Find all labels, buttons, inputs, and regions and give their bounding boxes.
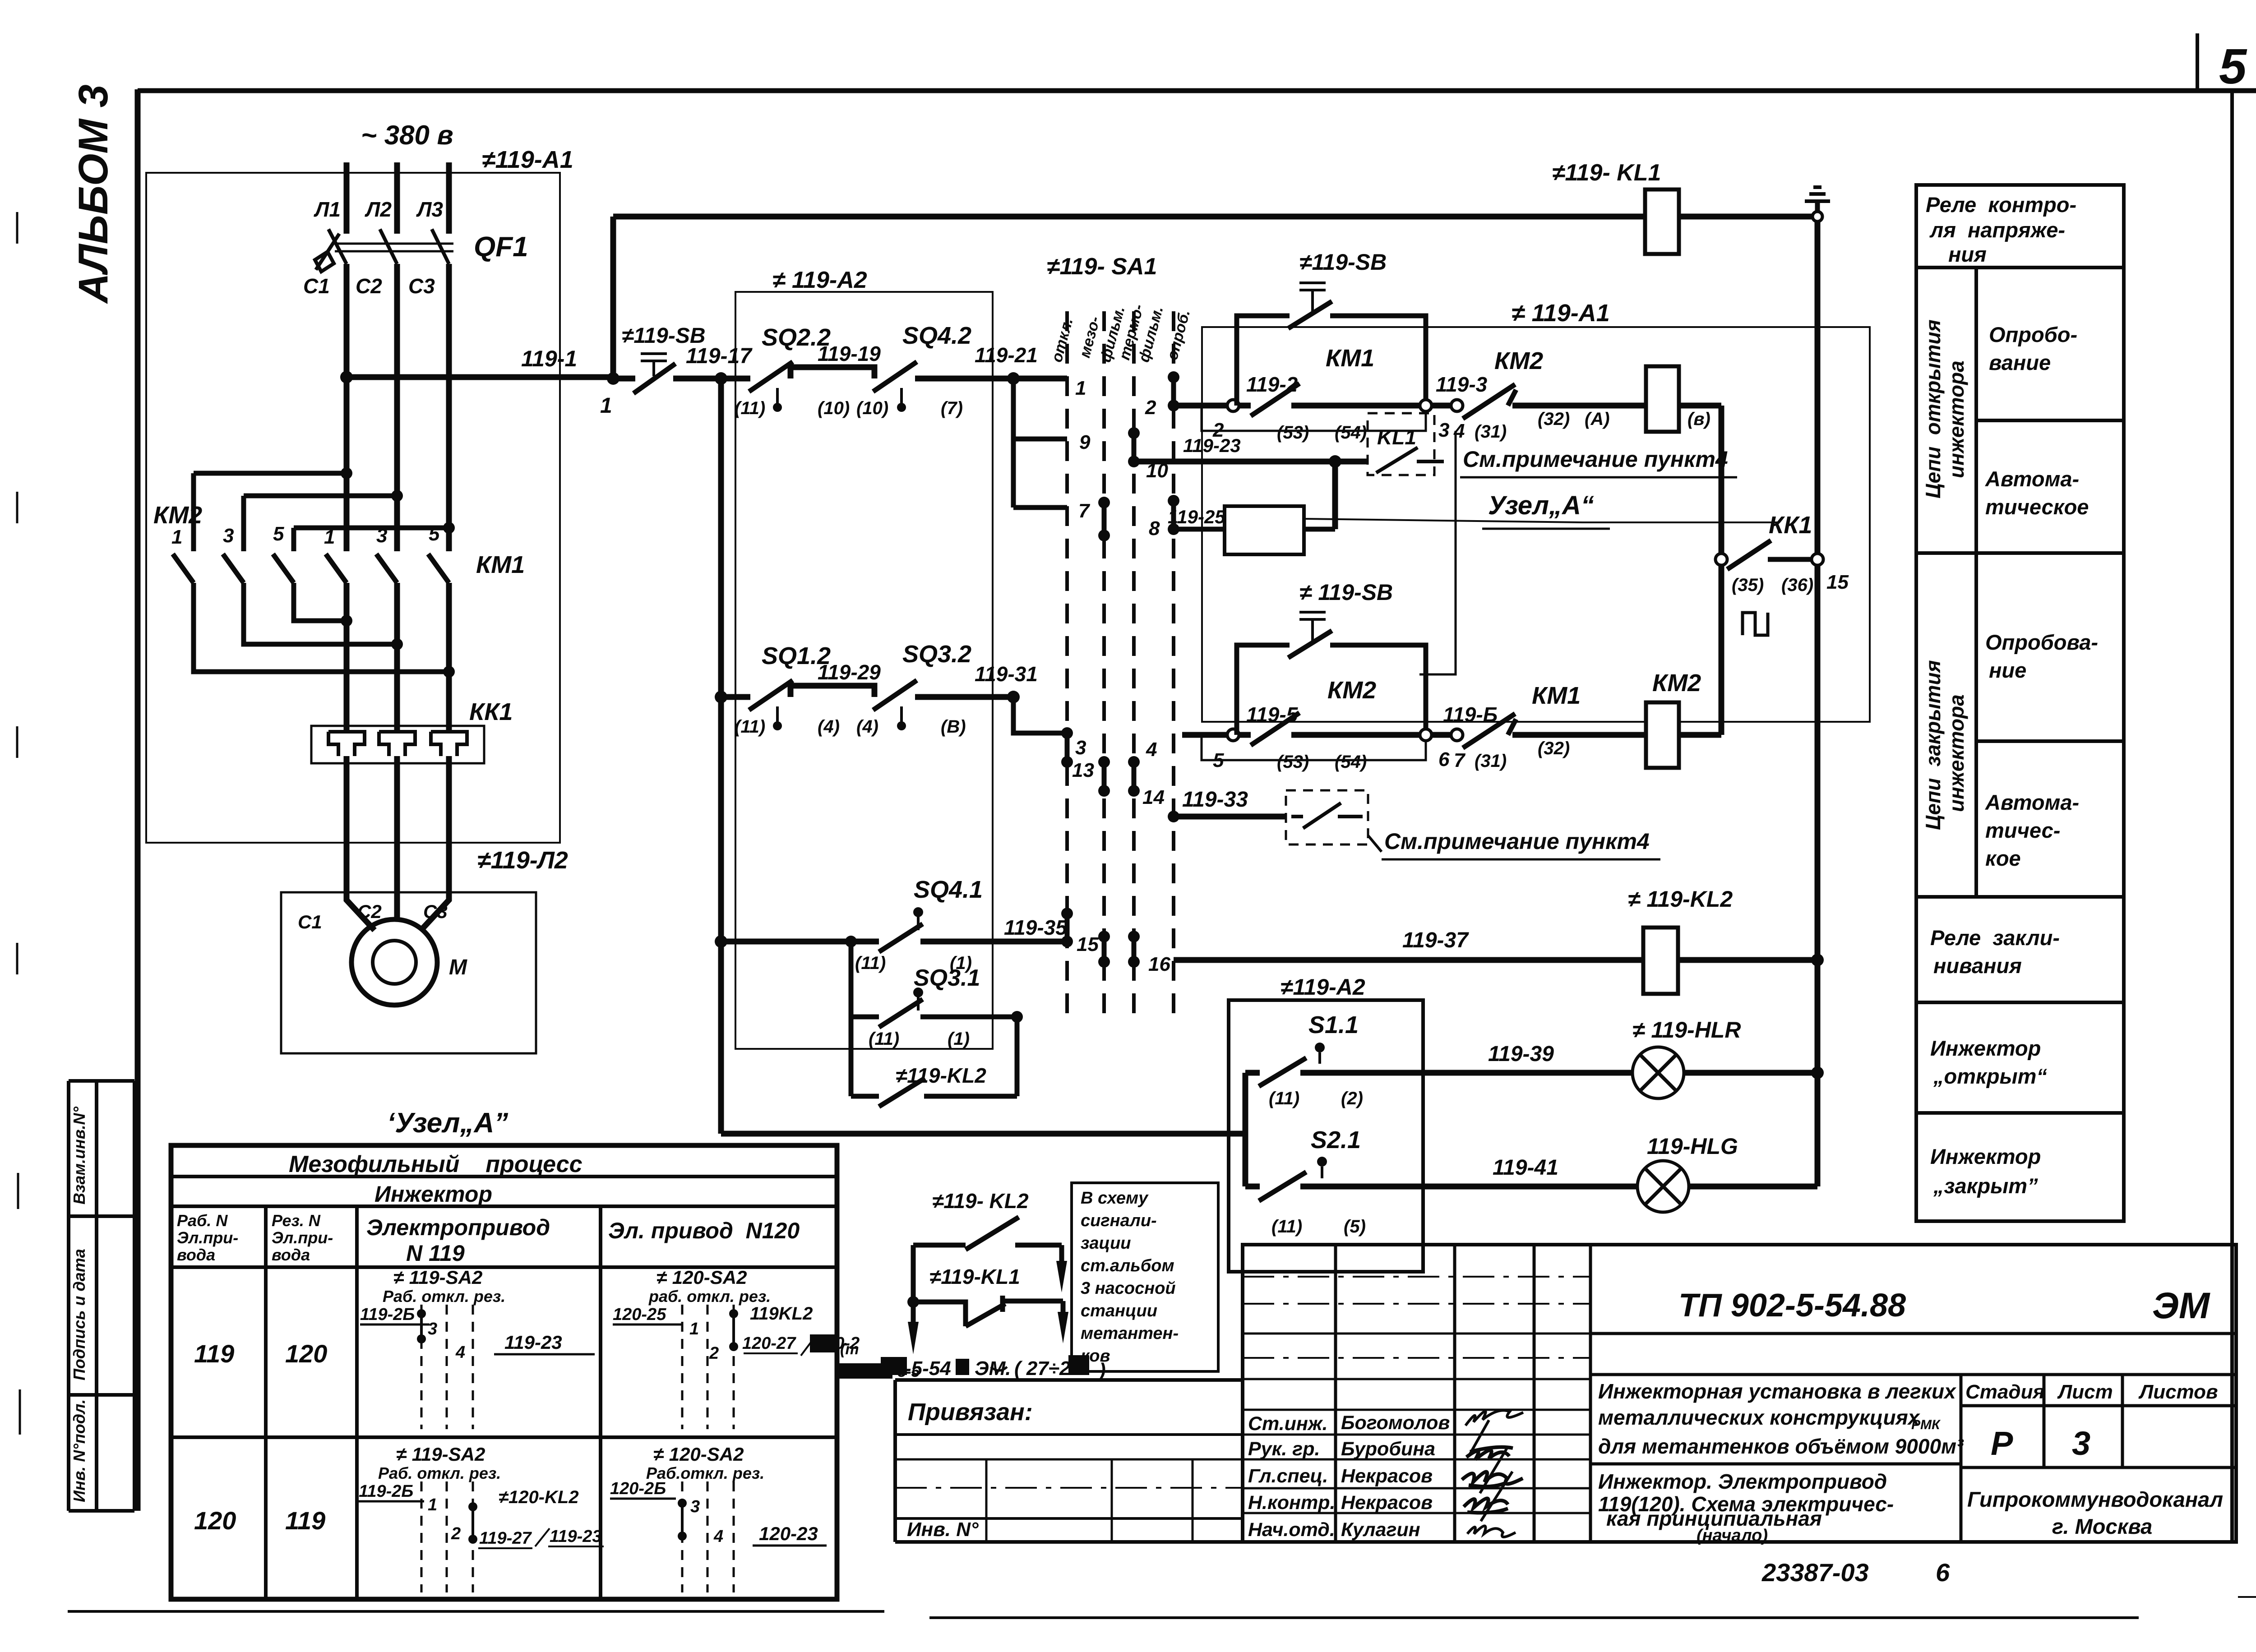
svg-text:(31): (31) <box>1475 422 1507 442</box>
svg-text:‘Узел„А”: ‘Узел„А” <box>387 1107 508 1139</box>
svg-text:„закрыт”: „закрыт” <box>1933 1174 2038 1198</box>
svg-text:C3: C3 <box>408 274 435 298</box>
wire branch to SA1 row3 <box>1013 697 1067 733</box>
SA1 contact pair col2 bottom <box>1102 937 1107 962</box>
svg-text:(7): (7) <box>941 398 963 418</box>
svg-text:Электропривод: Электропривод <box>366 1215 550 1240</box>
svg-text:ние: ние <box>1989 658 2026 682</box>
svg-text:КМ2: КМ2 <box>1494 347 1543 374</box>
svg-text:3: 3 <box>376 525 387 547</box>
motor M <box>351 919 437 1005</box>
svg-text:металлических конструкциях: металлических конструкциях <box>1598 1406 1921 1429</box>
svg-text:ля напряже-: ля напряже- <box>1929 218 2065 242</box>
svg-text:5: 5 <box>273 523 284 545</box>
svg-text:Мезофильный процесс: Мезофильный процесс <box>289 1151 582 1177</box>
svg-text:(32): (32) <box>1538 738 1570 758</box>
signature grid verticals <box>1336 1245 1590 1542</box>
sheet bottom edge line <box>68 1611 2139 1618</box>
legend table frame <box>1916 185 2124 1221</box>
wire phase C vertical <box>446 264 452 551</box>
svg-text:Инжектор: Инжектор <box>374 1181 492 1207</box>
svg-text:1: 1 <box>324 526 335 548</box>
header row Мезофильный процесс <box>171 1175 837 1178</box>
terminal 2 <box>1227 400 1239 411</box>
SA1 contact pair col4 <box>1171 501 1176 529</box>
svg-text:C3: C3 <box>423 901 448 922</box>
svg-text:Привязан:: Привязан: <box>908 1398 1033 1426</box>
svg-text:119-HLG: 119-HLG <box>1647 1134 1738 1159</box>
svg-text:вода: вода <box>272 1246 310 1264</box>
enclosure box 119-A1 right <box>1202 327 1870 722</box>
svg-text:C1: C1 <box>298 911 322 932</box>
svg-text:119: 119 <box>285 1506 325 1535</box>
svg-text:Некрасов: Некрасов <box>1341 1492 1433 1514</box>
row divider <box>171 1435 837 1439</box>
svg-text:KL1: KL1 <box>1377 425 1416 449</box>
svg-text:кое: кое <box>1985 846 2021 870</box>
svg-text:тичес-: тичес- <box>1985 818 2060 842</box>
svg-text:ТП 902-5-54.88: ТП 902-5-54.88 <box>1678 1287 1906 1324</box>
wire phase A vertical <box>344 264 350 551</box>
svg-text:инжектора: инжектора <box>1945 694 1968 812</box>
svg-text:S2.1: S2.1 <box>1311 1126 1361 1154</box>
svg-text:(11): (11) <box>869 1029 899 1049</box>
svg-text:119-21: 119-21 <box>975 343 1038 367</box>
wire main control vertical <box>718 378 724 1134</box>
SA1 contact pair col1 mid <box>1065 733 1070 762</box>
node 119-17 <box>715 372 727 385</box>
drawing frame left edge <box>135 89 141 1511</box>
svg-text:Лист: Лист <box>2057 1381 2113 1403</box>
wire 119-41 <box>1423 1184 1637 1190</box>
svg-text:SQ3.2: SQ3.2 <box>902 641 971 668</box>
cell Опробование закрытия <box>1976 739 2124 743</box>
SA1 contact pair col4 top <box>1171 377 1176 406</box>
svg-text:C2: C2 <box>356 274 382 298</box>
wire phase L2 stub <box>394 162 400 234</box>
wire SQ3.1 branch vertical <box>849 941 854 1096</box>
svg-text:120-23: 120-23 <box>759 1523 818 1544</box>
wire bus to ground <box>1679 214 1813 220</box>
svg-text:Кулагин: Кулагин <box>1341 1519 1420 1541</box>
svg-text:15: 15 <box>1826 571 1849 593</box>
svg-text:Некрасов: Некрасов <box>1341 1465 1433 1487</box>
privyazan grid <box>986 1459 1193 1542</box>
svg-text:Автома-: Автома- <box>1985 790 2079 814</box>
relay coil 119-KL2 <box>1643 928 1678 994</box>
svg-text:1: 1 <box>1075 377 1086 399</box>
wire motor line 3 <box>446 583 452 732</box>
svg-text:119-23: 119-23 <box>550 1527 602 1546</box>
cell Реле заклинивания <box>1916 1001 2124 1004</box>
wire feed to KM2 pole 1 <box>194 473 347 551</box>
wire loop right vertical <box>1015 1017 1020 1096</box>
node 119-1 tap <box>340 371 353 383</box>
node on 119-23 <box>1329 455 1341 468</box>
svg-text:SQ4.1: SQ4.1 <box>914 876 983 903</box>
svg-text:Раб. откл. рез.: Раб. откл. рез. <box>383 1287 505 1306</box>
circuit breaker QF1 <box>335 244 453 251</box>
svg-text:7: 7 <box>1454 749 1466 771</box>
svg-text:вание: вание <box>1989 351 2051 374</box>
stage cells <box>1961 1375 2122 1542</box>
svg-text:≠ 119-SA2: ≠ 119-SA2 <box>393 1267 482 1288</box>
svg-text:Ст.инж.: Ст.инж. <box>1248 1413 1328 1435</box>
leader line uzel A <box>1304 519 1778 522</box>
svg-text:≠119-А2: ≠119-А2 <box>1281 974 1365 1000</box>
svg-text:КМ2: КМ2 <box>1327 677 1376 704</box>
row under document number <box>1590 1332 2236 1335</box>
node 1 <box>607 372 619 385</box>
wire branch to SA1 row9 row7 <box>1013 378 1067 508</box>
svg-text:(54): (54) <box>1335 423 1367 443</box>
svg-text:120: 120 <box>285 1339 327 1368</box>
handwritten signatures <box>1465 1410 1523 1426</box>
vertical split for rotated labels <box>1974 268 1978 897</box>
svg-text:(11): (11) <box>735 398 765 418</box>
svg-text:(31): (31) <box>1475 751 1507 771</box>
wire phase L1 stub <box>344 162 350 234</box>
svg-text:120-2Б: 120-2Б <box>610 1479 666 1498</box>
svg-text:ния: ния <box>1948 242 1987 266</box>
svg-text:ков: ков <box>1081 1347 1110 1366</box>
svg-text:4: 4 <box>455 1343 465 1362</box>
wire 119-37 <box>1174 957 1643 963</box>
SA1 dashed column 1 <box>1065 311 1069 1024</box>
svg-text:(начало): (начало) <box>1697 1526 1768 1545</box>
relay contact KL1 in dashed box <box>1368 413 1434 475</box>
svg-text:16: 16 <box>1148 953 1170 975</box>
svg-text:Гипрокоммунводоканал: Гипрокоммунводоканал <box>1967 1487 2223 1511</box>
ground symbol <box>1815 201 1820 212</box>
svg-text:≠119-А1: ≠119-А1 <box>482 146 573 173</box>
svg-text:(11): (11) <box>855 953 886 973</box>
svg-text:Раб. N: Раб. N <box>177 1211 228 1230</box>
svg-text:Гл.спец.: Гл.спец. <box>1248 1465 1328 1487</box>
wire 119-19 <box>791 367 874 378</box>
svg-text:SQ3.1: SQ3.1 <box>914 965 980 991</box>
svg-text:3: 3 <box>1075 737 1086 759</box>
svg-text:зации: зации <box>1081 1234 1131 1253</box>
svg-text:119-31: 119-31 <box>975 662 1038 686</box>
svg-text:Л1: Л1 <box>314 198 341 221</box>
enclosure box 119-A1 left <box>146 173 560 843</box>
svg-text:Инв. N°подл.: Инв. N°подл. <box>70 1399 88 1502</box>
svg-text:3: 3 <box>1438 419 1449 441</box>
enclosure box 119-A2 left <box>735 292 993 1049</box>
wires KK1 to motor <box>347 756 449 930</box>
right return rail <box>1815 221 1821 1186</box>
svg-text:119-1: 119-1 <box>521 346 577 371</box>
svg-text:Инжектор. Электропривод: Инжектор. Электропривод <box>1598 1470 1887 1493</box>
contactor KM1 pole 3 <box>376 554 397 583</box>
note box to signalling scheme <box>1072 1183 1218 1371</box>
svg-text:3: 3 <box>2072 1425 2090 1462</box>
svg-text:119-23: 119-23 <box>504 1332 562 1353</box>
svg-text:раб. откл. рез.: раб. откл. рез. <box>648 1287 771 1306</box>
svg-text:инжектора: инжектора <box>1945 360 1968 478</box>
svg-text:2: 2 <box>1145 397 1156 419</box>
svg-text:тическое: тическое <box>1985 495 2089 519</box>
SA1 contact pair col3 <box>1132 433 1137 461</box>
wire 119-21 <box>915 376 1067 382</box>
svg-text:≠ 120-SA2: ≠ 120-SA2 <box>656 1267 747 1288</box>
svg-text:8: 8 <box>1149 517 1160 540</box>
svg-text:метантен-: метантен- <box>1081 1324 1179 1343</box>
svg-text:сигнали-: сигнали- <box>1081 1211 1157 1230</box>
svg-text:КМ2: КМ2 <box>1652 669 1701 697</box>
svg-text:ст.альбом: ст.альбом <box>1081 1256 1174 1275</box>
svg-text:станции: станции <box>1081 1301 1157 1320</box>
contactor KM2 pole 5 <box>273 554 294 583</box>
svg-text:119-37: 119-37 <box>1402 928 1469 952</box>
wire KM2 pole1 output crossover <box>194 583 449 672</box>
svg-text:М: М <box>449 955 467 979</box>
svg-text:1: 1 <box>428 1495 437 1514</box>
wire arrow right lower <box>1061 1301 1066 1314</box>
terminal 5 <box>1227 729 1239 741</box>
svg-text:Рез. N: Рез. N <box>272 1211 321 1230</box>
svg-text:6: 6 <box>1936 1558 1950 1587</box>
svg-text:(4): (4) <box>818 717 840 737</box>
svg-text:≠ 119-HLR: ≠ 119-HLR <box>1632 1017 1741 1043</box>
svg-text:(11): (11) <box>735 717 765 737</box>
wire S feed riser <box>1229 1073 1245 1186</box>
svg-text:SQ4.2: SQ4.2 <box>902 322 971 349</box>
svg-text:(4): (4) <box>856 717 878 737</box>
signature grid upper rows <box>1243 1277 1590 1358</box>
svg-text:(11): (11) <box>1271 1217 1302 1237</box>
SA1 dashed column 3 <box>1132 311 1136 1024</box>
svg-text:АЛЬБОМ 3: АЛЬБОМ 3 <box>70 84 116 304</box>
contactor KM1 pole 1 <box>326 554 347 583</box>
svg-text:(10): (10) <box>818 398 850 418</box>
wire 119-39 <box>1423 1070 1632 1076</box>
NC contact KM2 row A <box>1432 403 1451 409</box>
contactor KM1 pole 5 <box>428 554 449 583</box>
svg-text:Автома-: Автома- <box>1985 467 2079 491</box>
svg-text:(35): (35) <box>1732 575 1764 595</box>
wire 119-35 <box>920 939 1067 945</box>
wire feed to KM2 pole 5 <box>294 528 449 551</box>
svg-text:≠ 119-А1: ≠ 119-А1 <box>1512 300 1610 327</box>
svg-text:≠ 119-SB: ≠ 119-SB <box>1299 580 1393 605</box>
drawing frame top edge <box>138 88 2256 93</box>
SA1 contact pair col3 bottom <box>1132 937 1137 962</box>
wire coil KM1 to KK1 rail <box>1679 406 1721 735</box>
svg-text:Реле закли-: Реле закли- <box>1930 926 2060 950</box>
svg-text:≠ 119-KL2: ≠ 119-KL2 <box>1628 886 1733 912</box>
svg-text:Стадия: Стадия <box>1965 1381 2044 1403</box>
wire motor line 1 <box>344 583 350 732</box>
svg-text:(А): (А) <box>1585 409 1610 429</box>
dashed box contact on 119-33 <box>1286 790 1368 844</box>
svg-text:(B): (B) <box>941 717 966 737</box>
svg-text:119KL2: 119KL2 <box>750 1304 813 1324</box>
motor enclosure box <box>281 892 536 1053</box>
bypass thin line row A <box>1202 406 1426 431</box>
svg-text:откл.: откл. <box>1048 316 1077 364</box>
svg-text:-5-5: -5-5 <box>892 1363 920 1380</box>
cell Опробование <box>1976 419 2124 422</box>
SA1 contact pair col3 mid <box>1132 762 1137 791</box>
svg-text:См.примечание пункт4: См.примечание пункт4 <box>1384 829 1650 854</box>
wire 119-33 <box>1174 814 1286 820</box>
wire feed to KM2 pole 3 <box>244 496 397 551</box>
svg-text:„открыт“: „открыт“ <box>1933 1064 2047 1088</box>
svg-text:≠120-KL2: ≠120-KL2 <box>499 1487 579 1507</box>
svg-text:15: 15 <box>1077 933 1099 955</box>
svg-text:7: 7 <box>1078 500 1091 522</box>
node loop right <box>1011 1011 1023 1023</box>
wire row A from SA1 <box>1174 403 1227 409</box>
svg-text:119-25: 119-25 <box>1168 506 1225 527</box>
svg-text:Р: Р <box>1991 1425 2013 1462</box>
svg-text:≠119-KL2: ≠119-KL2 <box>896 1064 986 1087</box>
svg-text:119-39: 119-39 <box>1488 1042 1554 1066</box>
SA1 dot col4 119-33 <box>1168 811 1179 822</box>
column lines <box>266 1206 601 1599</box>
svg-text:Инжектор: Инжектор <box>1930 1144 2041 1168</box>
svg-text:120-25: 120-25 <box>613 1305 666 1324</box>
cell Автоматическое закрытия <box>1916 895 2124 899</box>
svg-text:(5): (5) <box>1344 1217 1366 1237</box>
svg-text:(в): (в) <box>1687 409 1710 429</box>
svg-text:РМК: РМК <box>1911 1417 1941 1432</box>
wire 119-23 <box>1134 459 1368 465</box>
svg-text:119-27: 119-27 <box>479 1529 532 1548</box>
svg-text:Буробина: Буробина <box>1341 1438 1435 1460</box>
svg-text:КМ1: КМ1 <box>1532 682 1581 709</box>
svg-text:119-29: 119-29 <box>818 660 881 684</box>
svg-text:Реле контро-: Реле контро- <box>1926 193 2076 217</box>
svg-text:9: 9 <box>1079 431 1091 453</box>
cell Автоматическое <box>1916 551 2124 555</box>
svg-text:S1.1: S1.1 <box>1308 1011 1359 1038</box>
svg-text:Богомолов: Богомолов <box>1341 1412 1450 1434</box>
svg-text:≠119-KL1: ≠119-KL1 <box>929 1265 1020 1288</box>
svg-text:120: 120 <box>194 1506 236 1535</box>
svg-text:Листов: Листов <box>2138 1381 2218 1403</box>
svg-text:3: 3 <box>690 1497 700 1516</box>
svg-text:Опробо-: Опробо- <box>1989 323 2077 346</box>
SA1 contact pair col2 <box>1102 503 1107 535</box>
svg-text:(32): (32) <box>1538 409 1570 429</box>
svg-text:119-Б: 119-Б <box>1443 703 1498 726</box>
signature rows <box>1243 1410 1590 1513</box>
svg-text:КК1: КК1 <box>1769 512 1812 539</box>
svg-text:119-19: 119-19 <box>818 342 881 365</box>
svg-text:QF1: QF1 <box>474 231 528 263</box>
wire arrow right upper <box>1059 1245 1064 1263</box>
contactor KM2 pole 3 <box>223 554 244 583</box>
svg-text:119: 119 <box>194 1339 234 1368</box>
svg-text:6: 6 <box>1438 748 1450 771</box>
wire 119-1 <box>347 374 613 380</box>
wire KM2 pole3 output crossover <box>244 583 397 644</box>
wire phase L3 stub <box>446 162 452 234</box>
contactor KM2 pole 1 <box>173 554 194 583</box>
svg-text:Цепи закрытия: Цепи закрытия <box>1921 660 1945 830</box>
wire coil KM2 output <box>1679 732 1721 738</box>
svg-text:Цепи открытия: Цепи открытия <box>1921 319 1945 498</box>
svg-text:КМ1: КМ1 <box>1326 345 1374 372</box>
svg-text:≠119-Л2: ≠119-Л2 <box>477 847 568 874</box>
svg-text:Нач.отд.: Нач.отд. <box>1248 1519 1335 1541</box>
svg-text:119-35: 119-35 <box>1004 916 1068 939</box>
svg-text:Инв. N°: Инв. N° <box>907 1518 979 1541</box>
svg-text:120-27: 120-27 <box>742 1334 796 1353</box>
svg-text:119-23: 119-23 <box>1183 435 1241 456</box>
svg-text:Эл. привод N120: Эл. привод N120 <box>608 1218 800 1243</box>
svg-text:Опробова-: Опробова- <box>1985 630 2098 654</box>
column header divider <box>171 1265 837 1269</box>
svg-text:(2): (2) <box>1341 1089 1363 1108</box>
node SQ3.1 branch <box>845 936 857 947</box>
sheet title divider <box>1590 1463 1961 1466</box>
wire motor line 2 <box>394 583 400 732</box>
title block outer frame <box>1243 1245 2236 1542</box>
svg-text:Узел„А“: Узел„А“ <box>1488 491 1594 520</box>
svg-text:N 119: N 119 <box>406 1241 465 1266</box>
svg-text:Взам.инв.N°: Взам.инв.N° <box>70 1107 88 1205</box>
wire feed to S box <box>721 1131 1229 1137</box>
wire riser to top bus <box>610 217 616 378</box>
svg-text:≠ 119-SA2: ≠ 119-SA2 <box>396 1444 485 1465</box>
svg-text:КМ1: КМ1 <box>476 551 525 578</box>
svg-text:13: 13 <box>1072 759 1094 781</box>
right margin dashes <box>2238 406 2256 1597</box>
svg-text:(36): (36) <box>1781 575 1813 595</box>
svg-text:Л2: Л2 <box>365 198 392 221</box>
left stamp column box <box>69 1081 134 1511</box>
svg-text:119-3: 119-3 <box>1436 373 1488 396</box>
wire row B from SA1 <box>1182 732 1227 738</box>
SA1 contact pair col2 mid <box>1102 762 1107 791</box>
svg-text:КК1: КК1 <box>469 698 513 725</box>
wire link to row B bypass <box>1419 431 1456 674</box>
svg-text:2: 2 <box>451 1524 461 1543</box>
wire KM2 pole5 output crossover <box>294 583 347 621</box>
svg-text:23387-03: 23387-03 <box>1761 1558 1869 1587</box>
svg-text:В схему: В схему <box>1081 1189 1149 1208</box>
pushbutton SB stop <box>613 376 635 382</box>
component box on 119-25 <box>1225 506 1304 554</box>
drawing frame right edge <box>2230 91 2234 1542</box>
svg-text:Инжектор: Инжектор <box>1930 1036 2041 1060</box>
svg-text:Инжекторная установка в легких: Инжекторная установка в легких <box>1598 1380 1957 1403</box>
svg-text:(1): (1) <box>948 1029 970 1049</box>
cell Реле контроля напряжения <box>1916 266 2124 269</box>
relay coil 119-KL1 <box>1645 189 1679 254</box>
svg-text:(54): (54) <box>1335 752 1367 772</box>
wire 119-23 down link <box>1332 461 1338 529</box>
svg-text:1: 1 <box>171 526 182 548</box>
svg-text:3 насосной: 3 насосной <box>1081 1279 1176 1298</box>
svg-text:14: 14 <box>1142 786 1165 808</box>
svg-text:нивания: нивания <box>1933 954 2022 978</box>
sheet number tick <box>2196 33 2199 91</box>
svg-text:вода: вода <box>177 1246 215 1264</box>
uzel A table frame <box>171 1145 837 1599</box>
svg-text:≠119- SA1: ≠119- SA1 <box>1047 254 1157 280</box>
privyazan block <box>895 1380 1243 1542</box>
svg-text:См.примечание пункт4: См.примечание пункт4 <box>1463 447 1728 472</box>
node 119-21 <box>1007 372 1020 385</box>
node 6 <box>1420 729 1432 741</box>
svg-text:119-2Б: 119-2Б <box>359 1482 413 1501</box>
svg-text:Эл.при-: Эл.при- <box>177 1228 238 1247</box>
